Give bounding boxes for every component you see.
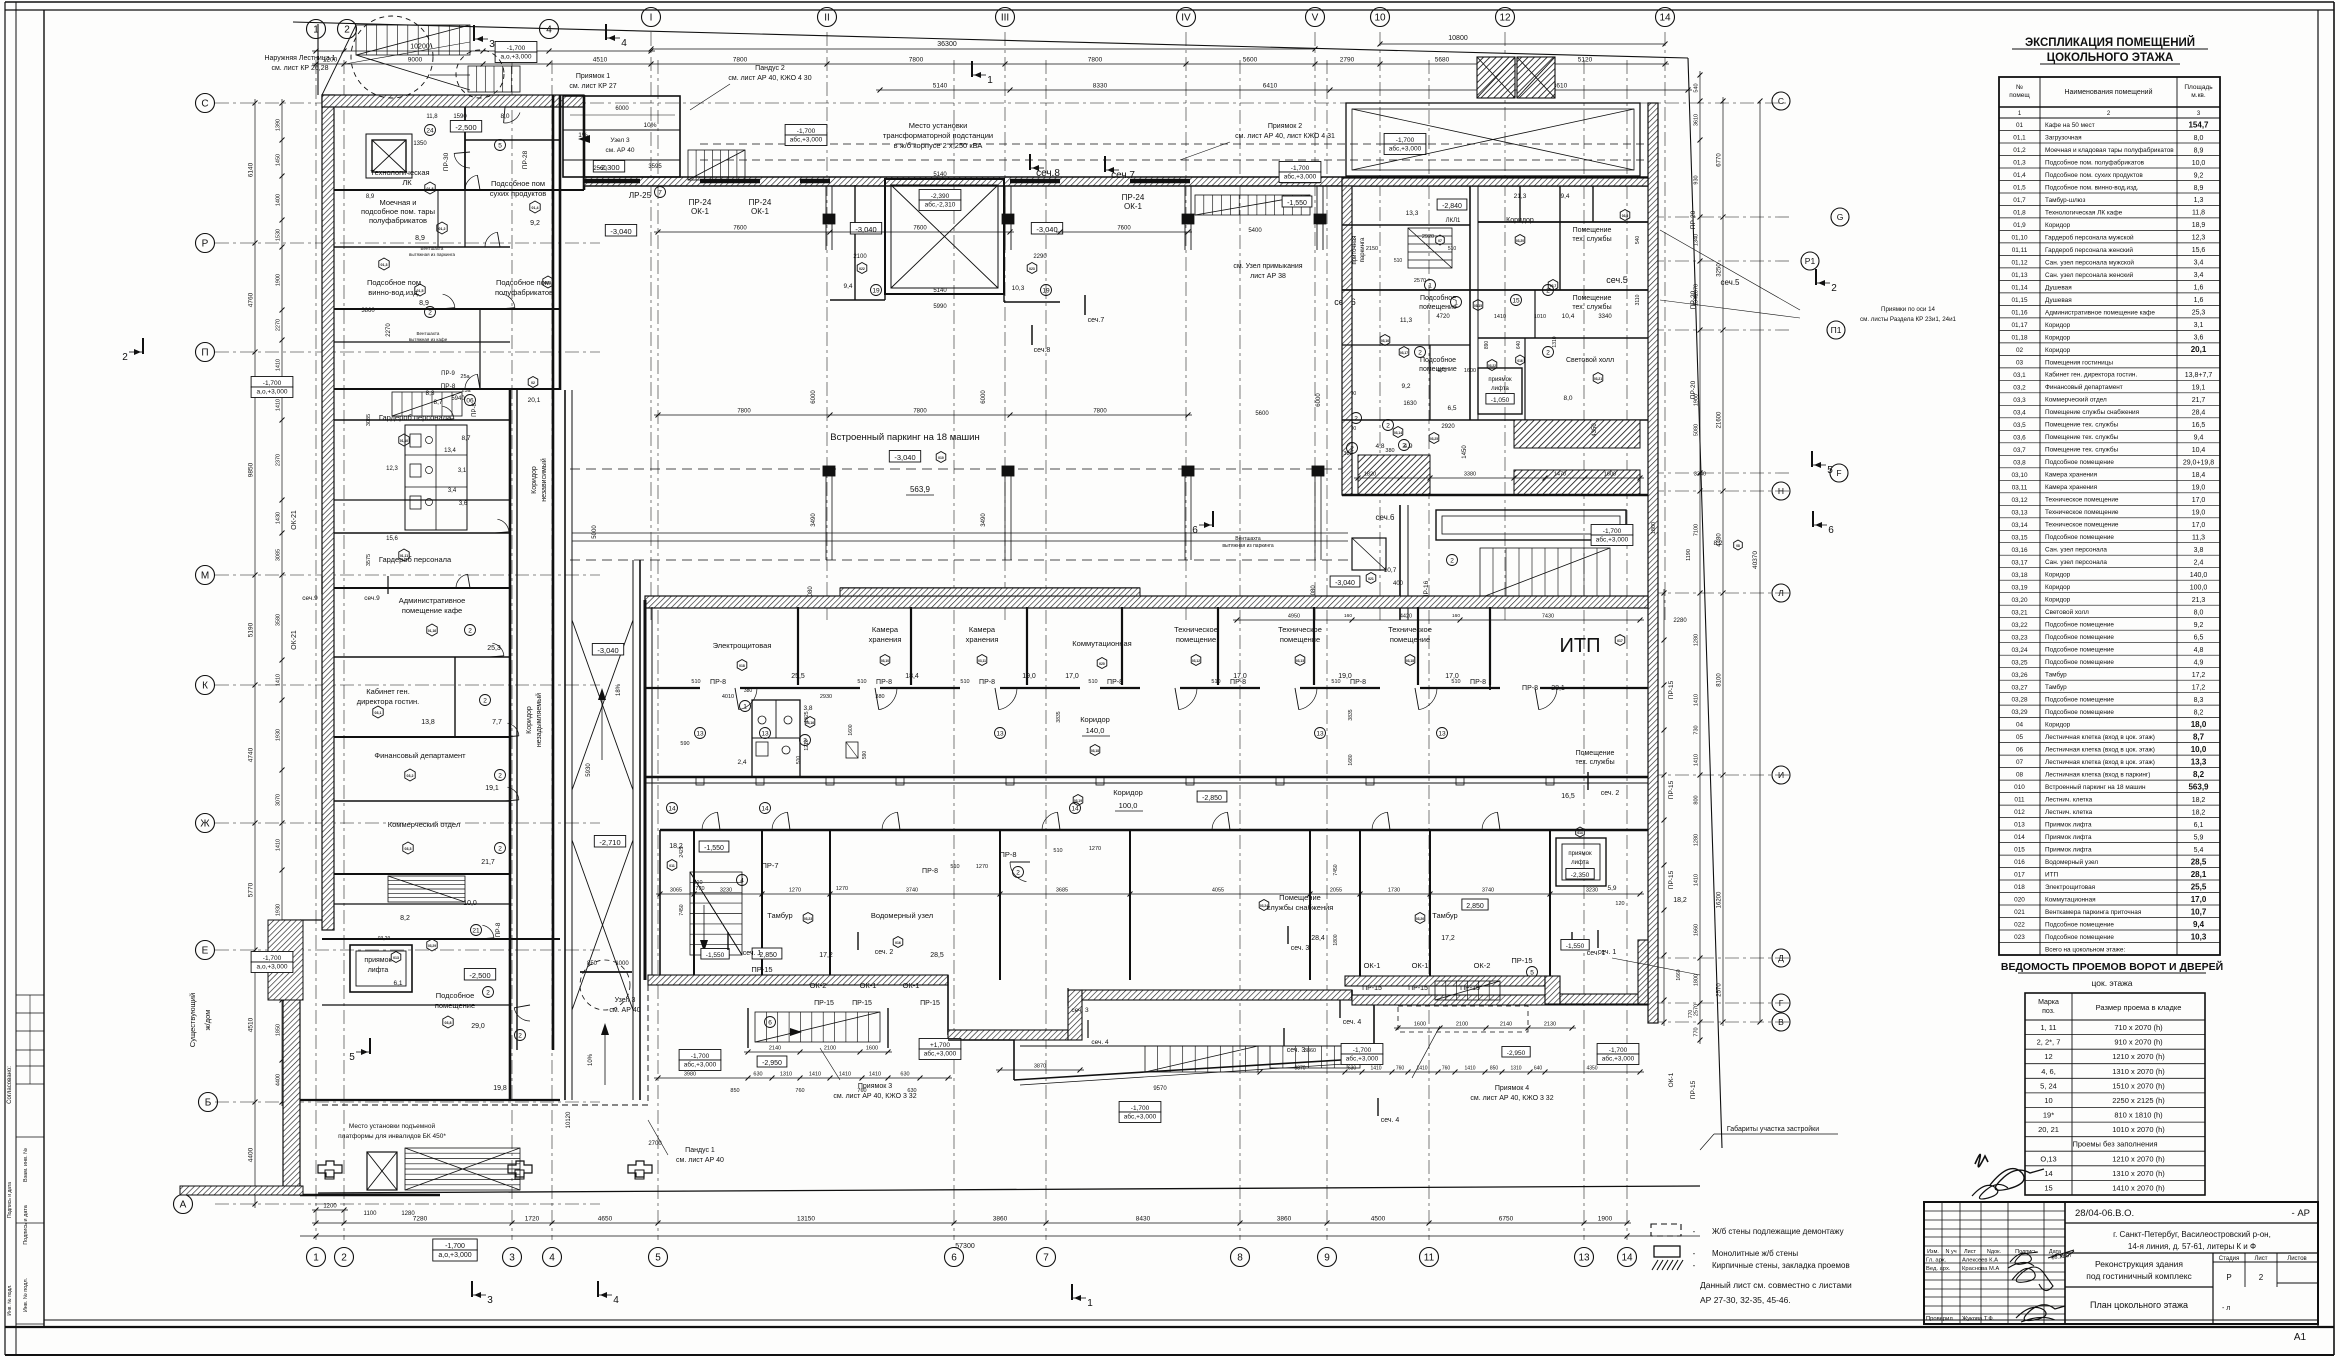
svg-text:57300: 57300 [955, 1243, 975, 1250]
svg-text:-3,040: -3,040 [894, 453, 915, 462]
svg-text:-3,040: -3,040 [610, 227, 631, 236]
svg-text:03,3: 03,3 [405, 847, 412, 851]
svg-text:10,0: 10,0 [2191, 745, 2207, 754]
svg-text:018: 018 [739, 664, 745, 668]
svg-text:Камера: Камера [969, 625, 996, 634]
svg-text:винно-вод.изд.: винно-вод.изд. [368, 288, 419, 297]
svg-text:5: 5 [1827, 465, 1833, 476]
svg-text:1270: 1270 [836, 886, 848, 892]
svg-text:Данный лист см. совместно с ли: Данный лист см. совместно с листами [1700, 1280, 1852, 1290]
svg-text:Вентшахта: Вентшахта [1235, 536, 1261, 542]
stair bottom left of band [755, 1012, 880, 1042]
svg-text:помещение: помещение [1390, 635, 1430, 644]
svg-text:3490: 3490 [981, 513, 987, 527]
svg-text:№: № [2016, 84, 2023, 91]
left wing partitions [334, 189, 584, 191]
svg-text:Техническое помещение: Техническое помещение [2045, 497, 2119, 504]
svg-text:Приямок 1: Приямок 1 [576, 73, 610, 80]
svg-text:ОК-1: ОК-1 [860, 981, 877, 990]
svg-text:ПР-15: ПР-15 [852, 1000, 872, 1007]
svg-text:3085: 3085 [276, 549, 282, 561]
svg-text:03,28: 03,28 [2012, 697, 2028, 704]
lower rooms partitions [693, 830, 695, 980]
svg-text:1410: 1410 [276, 674, 282, 686]
svg-text:1: 1 [313, 1253, 319, 1264]
svg-text:8,7: 8,7 [461, 435, 470, 442]
svg-text:01,4: 01,4 [532, 206, 539, 210]
column symbols bottom-left [318, 1161, 342, 1177]
svg-text:10,3: 10,3 [2191, 932, 2207, 941]
svg-text:13: 13 [1316, 730, 1324, 737]
svg-text:10: 10 [1374, 13, 1386, 24]
svg-text:абс,+3,000: абс,+3,000 [1602, 1055, 1635, 1063]
svg-text:563,9: 563,9 [2188, 782, 2209, 791]
svg-text:6: 6 [1192, 525, 1198, 536]
svg-text:Подсобное помещение: Подсобное помещение [2045, 621, 2114, 629]
svg-text:Камера хранения: Камера хранения [2045, 484, 2098, 491]
svg-text:14: 14 [1659, 13, 1671, 24]
svg-text:03,16: 03,16 [2012, 547, 2028, 554]
svg-text:ПР-8: ПР-8 [472, 403, 478, 417]
svg-text:2280: 2280 [1673, 618, 1687, 624]
svg-text:03,23: 03,23 [804, 917, 812, 921]
svg-text:Узел 3: Узел 3 [615, 997, 636, 1004]
svg-text:9,2: 9,2 [1401, 383, 1410, 390]
svg-text:017: 017 [1617, 639, 1623, 643]
svg-text:ОК-1: ОК-1 [1668, 1072, 1675, 1087]
svg-text:5940: 5940 [451, 396, 465, 402]
svg-text:Коммутационная: Коммутационная [2045, 896, 2096, 903]
svg-text:3,8: 3,8 [2194, 547, 2204, 554]
svg-text:563,9: 563,9 [910, 485, 931, 494]
svg-text:19,1: 19,1 [485, 785, 499, 792]
svg-text:3250: 3250 [1717, 263, 1723, 277]
svg-text:Приямок 2: Приямок 2 [1268, 123, 1302, 130]
svg-text:03,29: 03,29 [378, 936, 391, 942]
svg-text:5600: 5600 [1255, 411, 1269, 417]
svg-text:ЛР-25: ЛР-25 [629, 191, 652, 200]
svg-text:380: 380 [1385, 448, 1394, 454]
svg-text:-2,950: -2,950 [1507, 1050, 1526, 1057]
svg-text:1: 1 [987, 75, 993, 86]
svg-text:Приямки по оси 14: Приямки по оси 14 [1881, 306, 1935, 313]
svg-text:приямок: приямок [364, 957, 392, 964]
svg-text:ПР-20: ПР-20 [1690, 290, 1697, 309]
svg-text:8,9: 8,9 [415, 235, 425, 242]
svg-text:трансформаторной подстанции: трансформаторной подстанции [883, 131, 993, 140]
svg-text:13: 13 [1578, 1253, 1590, 1264]
svg-text:380: 380 [744, 688, 753, 694]
svg-text:-1,700: -1,700 [1603, 528, 1622, 535]
svg-text:Лист: Лист [2254, 1256, 2267, 1262]
svg-text:11,8: 11,8 [426, 114, 438, 120]
svg-text:03,15: 03,15 [1474, 304, 1482, 308]
SE corner walls [1345, 976, 1545, 986]
left wing sanitary cluster [405, 425, 467, 530]
svg-text:ОК-21: ОК-21 [291, 630, 298, 650]
svg-text:8: 8 [1237, 1253, 1243, 1264]
svg-text:1660: 1660 [1694, 924, 1700, 936]
svg-text:Лестничная клетка (вход в цок.: Лестничная клетка (вход в цок. этаж) [2045, 759, 2155, 766]
svg-text:ПР-8: ПР-8 [1350, 679, 1366, 686]
svg-text:ОК-1: ОК-1 [691, 207, 710, 216]
svg-text:15: 15 [1512, 297, 1520, 304]
right dimension chains [1699, 71, 1701, 1044]
svg-text:-1,700: -1,700 [263, 955, 282, 962]
svg-text:03,11: 03,11 [2012, 484, 2028, 491]
svg-text:19,0: 19,0 [2192, 485, 2206, 492]
svg-text:тех. службы: тех. службы [1572, 235, 1611, 243]
svg-text:5930: 5930 [586, 763, 592, 777]
svg-text:Л: Л [1778, 588, 1784, 598]
svg-text:-1,700: -1,700 [1291, 165, 1310, 172]
svg-text:вытяжная из паркинга: вытяжная из паркинга [1222, 543, 1273, 549]
svg-text:ИТП: ИТП [2045, 871, 2058, 878]
svg-text:1310 x 2070 (h): 1310 x 2070 (h) [2112, 1067, 2165, 1076]
svg-text:Узел 3: Узел 3 [610, 137, 630, 144]
svg-text:2150: 2150 [1366, 246, 1378, 252]
svg-text:-3,040: -3,040 [1335, 580, 1355, 587]
svg-text:-2,350: -2,350 [1571, 872, 1590, 879]
svg-text:1800: 1800 [1333, 934, 1339, 945]
svg-text:Коммерческий отдел: Коммерческий отдел [388, 820, 460, 829]
svg-text:1280: 1280 [1694, 634, 1700, 646]
svg-text:2: 2 [498, 772, 502, 779]
svg-text:10,7: 10,7 [2191, 907, 2207, 916]
svg-text:8,9: 8,9 [2194, 185, 2204, 192]
svg-text:9: 9 [1324, 1253, 1330, 1264]
svg-text:сеч.5: сеч.5 [1720, 278, 1740, 287]
svg-text:5: 5 [655, 1253, 661, 1264]
svg-text:4510: 4510 [248, 1017, 255, 1032]
svg-text:01,14: 01,14 [2012, 285, 2028, 292]
svg-text:10,0: 10,0 [2192, 160, 2206, 167]
svg-text:8,9: 8,9 [419, 300, 429, 307]
svg-text:9,4: 9,4 [2194, 435, 2204, 442]
svg-text:2930: 2930 [820, 694, 832, 700]
svg-text:15,6: 15,6 [386, 536, 398, 542]
svg-text:Подсобное пом: Подсобное пом [491, 179, 545, 188]
svg-text:2920: 2920 [1422, 234, 1434, 240]
svg-text:03,21: 03,21 [2012, 609, 2028, 616]
svg-text:1210 x 2070 (h): 1210 x 2070 (h) [2112, 1052, 2165, 1061]
svg-text:2560: 2560 [593, 166, 607, 172]
svg-text:8,0: 8,0 [1563, 395, 1572, 402]
svg-text:5990: 5990 [933, 304, 947, 310]
svg-text:Световой холл: Световой холл [1566, 356, 1614, 364]
svg-text:7,7: 7,7 [492, 719, 502, 726]
svg-text:-3,040: -3,040 [855, 225, 876, 234]
svg-text:7100: 7100 [1694, 524, 1700, 536]
svg-text:помещение: помещение [1419, 304, 1457, 311]
svg-text:- л: - л [2222, 1305, 2230, 1312]
left wing outer walls [322, 95, 334, 930]
svg-text:1270: 1270 [1089, 846, 1101, 852]
svg-text:Помещение тех. службы: Помещение тех. службы [2045, 421, 2118, 429]
svg-text:9,2: 9,2 [530, 220, 540, 227]
svg-text:Инв. № подл.: Инв. № подл. [7, 1284, 13, 1315]
svg-text:011: 011 [2014, 797, 2025, 804]
svg-text:5,4: 5,4 [2194, 847, 2204, 854]
svg-text:5680: 5680 [1435, 57, 1450, 64]
svg-text:1390: 1390 [276, 119, 282, 131]
svg-text:-2,840: -2,840 [1442, 203, 1462, 210]
svg-text:ПР-15: ПР-15 [1668, 870, 1675, 889]
svg-text:3610: 3610 [1694, 114, 1700, 126]
svg-text:ПР-8: ПР-8 [922, 868, 938, 875]
svg-text:N уч: N уч [1945, 1249, 1956, 1255]
svg-text:Подсобное: Подсобное [1420, 294, 1456, 302]
svg-text:1: 1 [743, 703, 747, 710]
svg-text:1190: 1190 [1686, 549, 1692, 561]
svg-text:Приямок лифта: Приямок лифта [2045, 847, 2092, 854]
big pit with X top right [1346, 103, 1640, 176]
svg-text:ОК-1: ОК-1 [1124, 202, 1143, 211]
svg-text:03,12: 03,12 [1192, 659, 1200, 663]
svg-text:6: 6 [1828, 525, 1834, 536]
section marks [473, 25, 475, 41]
svg-text:14: 14 [1621, 1253, 1633, 1264]
svg-text:8430: 8430 [1136, 1216, 1151, 1223]
svg-text:6000: 6000 [1316, 393, 1322, 407]
svg-text:1000: 1000 [615, 961, 629, 967]
svg-text:2250 x 2125 (h): 2250 x 2125 (h) [2112, 1096, 2165, 1105]
svg-text:ПР-15: ПР-15 [920, 1000, 940, 1007]
svg-text:Камера хранения: Камера хранения [2045, 472, 2098, 479]
svg-text:8,0: 8,0 [2194, 610, 2204, 617]
svg-text:ж/дом: ж/дом [203, 1010, 212, 1031]
svg-text:помещение: помещение [1176, 635, 1216, 644]
svg-text:Краснова М.А: Краснова М.А [1962, 1266, 1999, 1272]
svg-text:2370: 2370 [276, 454, 282, 466]
svg-text:1410: 1410 [1694, 694, 1700, 706]
svg-text:7600: 7600 [913, 226, 927, 232]
svg-text:5, 24: 5, 24 [2040, 1081, 2057, 1090]
svg-text:3340: 3340 [1694, 472, 1706, 478]
svg-text:3,8: 3,8 [803, 705, 812, 712]
ramp Pandus2 [563, 96, 680, 177]
svg-text:П1: П1 [1831, 325, 1842, 335]
svg-text:510: 510 [691, 679, 700, 685]
svg-text:2, 2*, 7: 2, 2*, 7 [2037, 1038, 2061, 1047]
svg-text:03,11: 03,11 [978, 659, 986, 663]
svg-text:ПР-8: ПР-8 [999, 850, 1016, 859]
svg-text:Размер проема в кладке: Размер проема в кладке [2096, 1003, 2182, 1012]
svg-text:10,4: 10,4 [2192, 447, 2206, 454]
svg-text:19: 19 [872, 287, 880, 294]
stair at P-row left wing [392, 392, 462, 416]
sec marks top [1029, 154, 1031, 170]
svg-text:03,24: 03,24 [1260, 904, 1268, 908]
svg-text:17,0: 17,0 [2191, 895, 2207, 904]
svg-text:910 x 2070 (h): 910 x 2070 (h) [2114, 1038, 2163, 1047]
svg-text:010: 010 [938, 456, 944, 460]
svg-text:ПР-8: ПР-8 [710, 679, 726, 686]
svg-text:ПР-28: ПР-28 [522, 150, 529, 169]
svg-text:Камера: Камера [872, 625, 899, 634]
svg-text:510: 510 [1394, 258, 1403, 264]
svg-text:сеч.7: сеч.7 [1088, 317, 1105, 324]
svg-text:17,2: 17,2 [1441, 935, 1455, 942]
svg-text:ОК-1: ОК-1 [1364, 961, 1381, 970]
svg-text:13,8: 13,8 [421, 719, 435, 726]
svg-text:5140: 5140 [933, 288, 947, 294]
svg-text:03,29: 03,29 [428, 944, 436, 948]
svg-text:100,0: 100,0 [2190, 585, 2208, 592]
stairs top-left outside [356, 25, 470, 55]
svg-text:28,5: 28,5 [930, 952, 944, 959]
svg-text:6,1: 6,1 [2194, 822, 2204, 829]
svg-text:13,8+7,7: 13,8+7,7 [2185, 372, 2213, 379]
svg-text:2: 2 [1402, 442, 1406, 449]
svg-text:Подсобное пом. полуфабрикатов: Подсобное пом. полуфабрикатов [2045, 158, 2145, 166]
svg-text:9850: 9850 [248, 462, 255, 477]
vedomost rows [2025, 1034, 2205, 1036]
svg-text:м.кв.: м.кв. [2191, 92, 2206, 99]
svg-text:770: 770 [695, 886, 704, 892]
svg-text:Вентшахта: Вентшахта [421, 246, 444, 251]
svg-text:Подсобное помещение: Подсобное помещение [2045, 696, 2114, 704]
svg-text:под гостиничный комплекс: под гостиничный комплекс [2086, 1271, 2192, 1281]
svg-text:Согласовано:: Согласовано: [7, 1066, 13, 1104]
svg-text:сеч. 1: сеч. 1 [743, 950, 762, 957]
svg-text:2570: 2570 [1717, 983, 1723, 997]
svg-text:011: 011 [669, 864, 675, 868]
svg-text:21,7: 21,7 [2192, 397, 2206, 404]
svg-text:5080: 5080 [1694, 424, 1700, 436]
svg-text:18,9: 18,9 [2192, 222, 2206, 229]
svg-text:ПР-8: ПР-8 [1522, 685, 1538, 692]
svg-text:3,1: 3,1 [458, 468, 467, 474]
svg-text:01,2: 01,2 [2013, 147, 2026, 154]
svg-text:03,8: 03,8 [445, 1021, 452, 1025]
two hatched boxes top [1477, 57, 1515, 98]
svg-text:лифта: лифта [368, 967, 389, 974]
svg-text:см. Узел примыкания: см. Узел примыкания [1233, 263, 1302, 270]
svg-text:1410: 1410 [809, 1072, 821, 1078]
svg-text:023: 023 [2014, 934, 2025, 941]
svg-text:21: 21 [472, 927, 480, 934]
svg-text:3860: 3860 [1277, 1216, 1292, 1223]
svg-text:Лестнич. клетка: Лестнич. клетка [2045, 797, 2093, 804]
svg-text:01,10: 01,10 [400, 439, 408, 443]
svg-text:приямок: приямок [1488, 377, 1512, 383]
svg-text:Р: Р [202, 239, 209, 250]
svg-text:18,4: 18,4 [2192, 472, 2206, 479]
svg-text:1280: 1280 [401, 1211, 415, 1217]
svg-text:Помещения гостиницы: Помещения гостиницы [2045, 359, 2113, 366]
svg-text:сеч. 2: сеч. 2 [1601, 790, 1620, 797]
svg-text:4, 6,: 4, 6, [2041, 1067, 2056, 1076]
svg-text:1410 x 2070 (h): 1410 x 2070 (h) [2112, 1184, 2165, 1193]
svg-text:13,3: 13,3 [1406, 210, 1419, 217]
svg-text:ПР-15: ПР-15 [1690, 1080, 1697, 1099]
svg-text:12: 12 [1499, 13, 1511, 24]
svg-text:Подсобное помещение: Подсобное помещение [2045, 633, 2114, 641]
svg-text:3340: 3340 [1598, 314, 1612, 320]
svg-text:Реконструкция здания: Реконструкция здания [2095, 1259, 2183, 1269]
svg-text:директора гостин.: директора гостин. [357, 697, 420, 706]
lower band south wall with windows [648, 975, 948, 985]
svg-text:510: 510 [1451, 679, 1460, 685]
svg-text:4420: 4420 [1400, 614, 1412, 620]
svg-text:2140: 2140 [1500, 1022, 1512, 1028]
svg-text:2570: 2570 [1414, 278, 1426, 284]
svg-text:760: 760 [857, 1088, 866, 1094]
svg-text:сухих продуктов: сухих продуктов [490, 189, 547, 198]
svg-text:Помещение: Помещение [1573, 295, 1612, 302]
axis bubbles bottom [307, 1248, 326, 1267]
svg-text:помещение: помещение [1419, 366, 1457, 373]
signature grid [1924, 1210, 2065, 1212]
svg-text:1730: 1730 [1388, 888, 1400, 894]
svg-text:-1,700: -1,700 [691, 1053, 710, 1060]
svg-text:а,о,+3,000: а,о,+3,000 [501, 54, 532, 61]
svg-text:7430: 7430 [1542, 614, 1554, 620]
svg-text:помещение: помещение [1280, 635, 1320, 644]
svg-text:020: 020 [2014, 897, 2025, 904]
svg-text:6000: 6000 [981, 390, 987, 404]
svg-text:абс,+3,000: абс,+3,000 [1596, 536, 1629, 544]
svg-text:03,25: 03,25 [2012, 659, 2028, 666]
svg-text:Лестничная клетка (вход в парк: Лестничная клетка (вход в паркинг) [2045, 772, 2150, 779]
svg-text:7450: 7450 [1333, 864, 1339, 875]
svg-text:19: 19 [1042, 287, 1050, 294]
svg-text:Инв. № подл.: Инв. № подл. [23, 1277, 29, 1312]
svg-text:01,1: 01,1 [2013, 135, 2026, 142]
svg-text:тех. службы: тех. службы [1572, 303, 1611, 311]
svg-text:760: 760 [795, 1088, 804, 1094]
corridor2 south wall [660, 829, 1648, 831]
svg-text:Марка: Марка [2038, 999, 2059, 1006]
svg-text:Кафе на 50 мест: Кафе на 50 мест [2045, 122, 2095, 129]
svg-text:930: 930 [1694, 175, 1700, 184]
svg-text:Проверил: Проверил [1926, 1316, 1953, 1322]
svg-text:8,3: 8,3 [425, 390, 434, 397]
svg-text:-: - [1693, 1261, 1696, 1270]
svg-text:2100: 2100 [1456, 1022, 1468, 1028]
svg-text:Коридор: Коридор [1113, 788, 1143, 797]
svg-text:5,9: 5,9 [1607, 885, 1616, 892]
window piers top band [584, 179, 640, 184]
svg-text:а,о,+3,000: а,о,+3,000 [257, 389, 288, 396]
svg-text:4740: 4740 [248, 747, 255, 762]
svg-text:Кабинет ген. директора гостин: Кабинет ген. директора гостин. [2045, 371, 2137, 379]
svg-text:8100: 8100 [1717, 673, 1723, 687]
svg-text:1270: 1270 [976, 864, 988, 870]
svg-text:510: 510 [1088, 679, 1097, 685]
svg-text:3: 3 [509, 1253, 515, 1264]
svg-text:4: 4 [613, 1295, 619, 1306]
svg-text:3380: 3380 [1464, 472, 1476, 478]
svg-text:Электрощитовая: Электрощитовая [713, 641, 772, 650]
svg-text:01,17: 01,17 [2012, 322, 2028, 329]
svg-text:016: 016 [2014, 859, 2025, 866]
svg-text:7800: 7800 [1088, 57, 1103, 64]
svg-text:2: 2 [122, 352, 128, 363]
svg-text:О,13: О,13 [2040, 1154, 2056, 1163]
elevator left wing [372, 140, 406, 172]
svg-text:19,0: 19,0 [2192, 510, 2206, 517]
svg-text:3835: 3835 [1348, 709, 1354, 720]
svg-text:010: 010 [2014, 784, 2025, 791]
svg-text:4760: 4760 [248, 292, 255, 307]
svg-text:см. АР 40: см. АР 40 [609, 1007, 640, 1014]
svg-text:К: К [202, 681, 208, 692]
svg-text:-2,500: -2,500 [469, 971, 490, 980]
svg-text:Водомерный узел: Водомерный узел [2045, 858, 2098, 866]
svg-text:25а: 25а [460, 374, 470, 380]
